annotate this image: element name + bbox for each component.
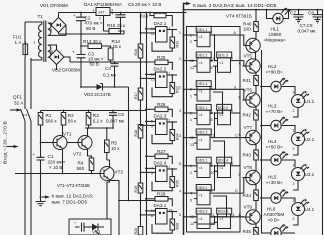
wire DA3.1 input a from bus x146 <box>146 210 156 212</box>
svg-text:470 мк ×: 470 мк × <box>85 21 103 26</box>
svg-text:DD1.1: DD1.1 <box>197 28 207 32</box>
svg-text:«Мережа»: «Мережа» <box>264 38 287 43</box>
svg-text:5: 5 <box>179 213 181 217</box>
wire input row y89.3 <box>184 88 195 90</box>
svg-text:13: 13 <box>190 143 194 147</box>
svg-text:5: 5 <box>190 198 192 202</box>
svg-text:R35: R35 <box>175 180 179 187</box>
svg-text:=1: =1 <box>199 217 203 221</box>
gate DD2.3 (XOR) <box>196 129 211 135</box>
wire DA2.2 output <box>167 74 177 76</box>
wire mains line L upper <box>24 22 26 44</box>
svg-text:R27: R27 <box>157 149 166 154</box>
wire input row y60.6 <box>184 60 195 62</box>
reference bus x146 <box>146 13 148 236</box>
resistor R1 <box>38 113 43 126</box>
svg-text:U4.1: U4.1 <box>305 207 315 212</box>
svg-text:R15 15 к: R15 15 к <box>107 23 126 28</box>
wire input row y165.8 <box>184 165 195 167</box>
wire input row y35 <box>184 34 195 36</box>
svg-text:R4: R4 <box>78 161 84 166</box>
svg-text:D: D <box>235 189 238 193</box>
svg-text:8: 8 <box>231 162 233 166</box>
wire y200.5 row <box>119 200 156 202</box>
svg-text:VT1–VT3 КТ315Б: VT1–VT3 КТ315Б <box>57 183 90 188</box>
gate DD1.4 (XOR) <box>196 81 211 87</box>
resistor R3 <box>86 113 91 126</box>
wire gate interconnect <box>197 66 216 89</box>
wire DA2.1 input b from divider x140.5 <box>141 32 156 34</box>
gate DD2.2 (XOR) <box>217 104 232 110</box>
svg-text:DA3.1: DA3.1 <box>154 203 167 208</box>
wire DA2.1 output <box>167 29 177 31</box>
svg-text:9: 9 <box>211 215 213 219</box>
resistor R33 <box>170 83 175 94</box>
svg-text:VT3: VT3 <box>115 170 124 175</box>
svg-text:R28: R28 <box>157 192 166 197</box>
svg-text:А: А <box>234 31 237 35</box>
svg-text:HL5: HL5 <box>268 175 277 180</box>
svg-text:HL4: HL4 <box>268 139 277 144</box>
thyristor box VS1 <box>69 219 111 235</box>
transistor VT4 <box>246 38 260 52</box>
svg-text:15 к: 15 к <box>113 44 122 49</box>
wire 0V line top <box>59 33 125 35</box>
resistor R18 <box>138 125 143 139</box>
svg-text:DA1 КР1158ЕН6А: DA1 КР1158ЕН6А <box>84 2 123 7</box>
svg-text:1: 1 <box>293 164 295 168</box>
svg-text:50 В: 50 В <box>86 26 95 31</box>
wire VT1 base from R1 node <box>41 142 54 144</box>
wire +5V rail from DA1 pin3 <box>110 12 187 14</box>
resistor R16 <box>138 44 143 58</box>
svg-text:R18: R18 <box>134 130 138 137</box>
svg-text:U2.1: U2.1 <box>305 137 315 142</box>
svg-text:0,047 мк: 0,047 мк <box>298 29 317 34</box>
wire gate interconnect <box>214 113 216 138</box>
svg-text:кЗТ: кЗТ <box>99 11 106 15</box>
gate DD1.2 (XOR) <box>196 52 211 58</box>
thyristor VS1 <box>88 226 92 228</box>
capacitor C3 <box>77 55 86 58</box>
wire input row y216.8 <box>184 216 195 218</box>
svg-text:В: В <box>239 133 242 137</box>
wire gate interconnect <box>213 196 227 217</box>
svg-text:9: 9 <box>211 164 213 168</box>
svg-text:2: 2 <box>293 217 295 221</box>
svg-text:С4: С4 <box>105 66 111 71</box>
svg-text:10: 10 <box>211 171 215 175</box>
svg-text:1 А: 1 А <box>15 40 23 45</box>
wire VT2 collector node <box>85 128 113 137</box>
wire to ground junction <box>40 196 42 198</box>
wire DD1.4 output to edge, node 9 <box>213 88 240 90</box>
svg-text:=1: =1 <box>219 217 223 221</box>
wire HL3 to U2.1 <box>281 126 295 133</box>
svg-text:+: + <box>73 13 76 18</box>
wire VD1 minus output <box>58 33 60 35</box>
svg-text:220 мк ×: 220 мк × <box>48 160 66 165</box>
svg-text:=1: =1 <box>199 166 203 170</box>
zener diode VD3 <box>81 86 97 88</box>
wire VT4 to VT5 <box>255 52 257 60</box>
transformer T1 secondary winding III <box>48 45 51 57</box>
node arrow к выв.12 <box>42 196 47 198</box>
svg-text:С1: С1 <box>48 154 54 159</box>
svg-text:5: 5 <box>211 118 213 122</box>
svg-text:VT6: VT6 <box>244 88 253 93</box>
svg-text:выв. 7 DD1–DD5: выв. 7 DD1–DD5 <box>52 200 88 205</box>
wire U2.1 pin2 down <box>293 146 298 156</box>
resistor R20 <box>138 227 143 236</box>
svg-text:R44: R44 <box>243 193 252 198</box>
ground <box>36 197 46 206</box>
wire VD2 output right <box>64 57 70 62</box>
svg-text:DD1.2: DD1.2 <box>197 53 207 57</box>
svg-text:2: 2 <box>293 182 295 186</box>
wire to VT8 base <box>240 178 244 194</box>
svg-text:HL3: HL3 <box>268 104 277 109</box>
wire DD1.3 output to edge <box>234 60 241 62</box>
capacitor C2 <box>76 13 86 35</box>
wire +rail from VD1 to DA1 <box>59 12 97 14</box>
svg-text:+: + <box>72 50 75 55</box>
capacitor C4 <box>111 62 119 87</box>
wire to VT5 base <box>240 61 246 66</box>
wire DD2.2 output to edge, node 6 <box>234 112 241 114</box>
svg-text:QF1: QF1 <box>13 95 22 100</box>
svg-text:R20: R20 <box>134 228 138 235</box>
resistor R24 <box>149 12 151 14</box>
wire to VT6 base <box>240 89 244 100</box>
svg-text:VT4 КТ361Б: VT4 КТ361Б <box>226 14 252 19</box>
svg-text:К выв. 12 DA2,DA3;: К выв. 12 DA2,DA3; <box>52 194 94 199</box>
svg-text:VD1 DF005M: VD1 DF005M <box>40 3 68 8</box>
svg-text:3: 3 <box>179 109 181 113</box>
svg-text:1: 1 <box>179 31 181 35</box>
svg-text:Б: Б <box>239 96 242 100</box>
resistor R5 <box>106 128 108 140</box>
transformer T1 core <box>44 21 46 63</box>
svg-text:R42: R42 <box>243 113 252 118</box>
svg-text:L5980: L5980 <box>269 32 282 37</box>
svg-text:R32: R32 <box>175 41 179 48</box>
wire gate interconnect <box>215 35 218 61</box>
wire input row y193.1 <box>184 192 195 194</box>
svg-text:С6: С6 <box>118 112 124 117</box>
resistor R36 <box>170 219 175 230</box>
svg-text:VT8: VT8 <box>244 165 253 170</box>
resistor R2 <box>61 113 66 126</box>
svg-text:13: 13 <box>168 209 172 213</box>
gate DD3.3 (XOR) <box>196 208 211 214</box>
gate DD3.4 (XOR) <box>217 208 232 214</box>
wire gate interconnect <box>197 217 215 224</box>
svg-text:VT7: VT7 <box>244 125 253 130</box>
wire DD3.4 output to edge, node 11 <box>213 216 240 218</box>
gate DD2.4 (XOR) <box>217 157 232 163</box>
wire base line y173.5 <box>15 173 100 175</box>
resistor R34 <box>170 130 175 141</box>
svg-text:1: 1 <box>168 27 170 31</box>
svg-text:2: 2 <box>168 166 170 170</box>
svg-text:4: 4 <box>179 189 181 193</box>
svg-text:C7,C8: C7,C8 <box>300 23 313 28</box>
wire input terminal arrow 1 <box>10 109 20 111</box>
svg-text:1: 1 <box>190 118 192 122</box>
wire DA2.2 input a from bus x146 <box>146 73 156 75</box>
svg-text:R1: R1 <box>46 113 52 118</box>
wire +V rail top right <box>184 10 323 235</box>
bridge rectifier VD1 <box>51 18 66 33</box>
svg-text:=1: =1 <box>199 35 203 39</box>
svg-text:4: 4 <box>211 59 213 63</box>
svg-text:DA2.2: DA2.2 <box>154 67 167 72</box>
wire VT1 collector to VT2 base <box>67 142 78 144</box>
wire DA3.1 output <box>167 211 177 213</box>
svg-text:С5 20 мк × 10 В: С5 20 мк × 10 В <box>128 2 161 7</box>
svg-text:13: 13 <box>190 222 194 226</box>
wire VT3 emitter down <box>107 180 110 220</box>
wire winding III to VD2 <box>48 45 57 50</box>
svg-text:R16: R16 <box>134 49 138 56</box>
wire vertical below C2 <box>80 34 82 87</box>
svg-text:9: 9 <box>234 85 236 89</box>
svg-text:FU1: FU1 <box>13 35 22 40</box>
svg-text:«+30 В»: «+30 В» <box>266 180 284 185</box>
wire U3.1 pin2 down <box>293 181 298 191</box>
svg-text:VT9: VT9 <box>244 205 253 210</box>
svg-text:4: 4 <box>211 111 213 115</box>
svg-text:R45: R45 <box>243 229 252 234</box>
svg-text:=1: =1 <box>199 113 203 117</box>
wire gate interconnect <box>197 166 215 190</box>
svg-text:HL6: HL6 <box>267 207 276 212</box>
wire primary top to fuse <box>25 22 42 25</box>
wire DA3.1 input b from divider x140.5 <box>141 214 156 216</box>
wire to VT9 base <box>240 216 244 218</box>
wire mains line N upper <box>30 58 32 109</box>
svg-text:+: + <box>111 11 114 16</box>
svg-text:DD2.3: DD2.3 <box>197 130 207 134</box>
svg-text:DD2.4: DD2.4 <box>218 159 228 163</box>
svg-text:R36: R36 <box>175 223 179 230</box>
svg-text:2: 2 <box>293 109 295 113</box>
resistor R19 <box>138 183 143 193</box>
svg-text:R25: R25 <box>157 55 166 60</box>
svg-text:+: + <box>33 152 36 157</box>
wire VD2 output bottom stub <box>56 65 58 71</box>
svg-text:100: 100 <box>243 27 251 32</box>
svg-text:2: 2 <box>293 147 295 151</box>
wire DA2.4 input b from divider x140.5 <box>141 171 156 173</box>
wire DD3.2 output to edge, node D <box>213 192 240 194</box>
svg-text:DD3.2: DD3.2 <box>197 186 207 190</box>
svg-text:32 А: 32 А <box>14 101 24 106</box>
divider bus x140.5 top <box>140 13 142 227</box>
wire DA2.3 input a from bus x146 <box>146 120 156 122</box>
svg-text:Вход ~130...270 В: Вход ~130...270 В <box>3 121 9 164</box>
svg-text:5,1 к: 5,1 к <box>93 119 104 124</box>
breaker QF1 pole 1 <box>21 109 26 121</box>
svg-text:DA2.1: DA2.1 <box>154 21 167 26</box>
svg-text:HL1: HL1 <box>271 27 280 32</box>
svg-text:=1: =1 <box>199 90 203 94</box>
capacitor C9 <box>75 223 88 232</box>
svg-text:R5: R5 <box>111 141 117 146</box>
svg-text:DA2.3: DA2.3 <box>154 114 167 119</box>
wire node line x128.5 <box>128 87 130 201</box>
svg-text:R43: R43 <box>243 153 252 158</box>
svg-text:Г: Г <box>239 173 241 177</box>
resistor R32 <box>170 37 175 48</box>
gate DD3.2 (XOR) <box>196 185 211 191</box>
wire HL2 to U1.1 <box>281 87 295 95</box>
wire U4.1 pin2 down <box>293 216 298 226</box>
svg-text:0,1 мк: 0,1 мк <box>103 73 117 78</box>
svg-text:II: II <box>50 28 53 33</box>
svg-text:10 к: 10 к <box>111 146 120 151</box>
svg-text:2: 2 <box>190 171 192 175</box>
svg-text:13: 13 <box>190 66 194 70</box>
breaker QF1 pole 2 <box>27 109 32 121</box>
svg-text:=1: =1 <box>199 138 203 142</box>
svg-text:2: 2 <box>190 40 192 44</box>
wire mains line N lower <box>30 121 32 235</box>
svg-text:3: 3 <box>210 31 212 35</box>
transformer T1 secondary winding II <box>48 23 51 35</box>
svg-text:«+50 В»: «+50 В» <box>266 145 284 150</box>
wire DA2.1 input a from bus x146 <box>146 28 156 30</box>
svg-text:1: 1 <box>93 9 95 13</box>
svg-text:VT5: VT5 <box>244 54 253 59</box>
gate DD1.3 (XOR) <box>217 52 232 58</box>
wire input terminal arrow 2 <box>7 146 17 148</box>
svg-text:3: 3 <box>210 85 212 89</box>
svg-text:DD1.4: DD1.4 <box>197 82 207 86</box>
svg-text:R41: R41 <box>243 78 252 83</box>
resistor R17 <box>138 88 143 100</box>
svg-text:R3: R3 <box>93 113 99 118</box>
wire mains line L mid <box>24 57 26 109</box>
capacitor C1 <box>37 125 45 197</box>
svg-text:U1.1: U1.1 <box>305 99 315 104</box>
capacitor C5 <box>116 13 126 32</box>
svg-text:R26: R26 <box>157 102 166 107</box>
svg-text:DD3.3: DD3.3 <box>197 210 207 214</box>
svg-text:R24: R24 <box>140 14 149 19</box>
svg-text:1: 1 <box>293 129 295 133</box>
collector bus x261 <box>261 50 263 233</box>
bridge rectifier VD2 <box>49 50 64 65</box>
svg-text:2: 2 <box>179 86 181 90</box>
transformer T1 primary winding I <box>39 25 42 58</box>
wire winding II to VD1 <box>48 23 51 25</box>
wire mains line L lower <box>24 121 26 235</box>
gate DD3.1 (XOR) <box>196 157 211 163</box>
svg-text:56 к: 56 к <box>68 119 77 124</box>
svg-text:1: 1 <box>293 199 295 203</box>
svg-text:6: 6 <box>231 109 233 113</box>
wire R5 bottom to VT3 collector <box>107 153 110 168</box>
wire +5V distribution line x183.5 with arrow <box>184 4 187 236</box>
svg-text:1: 1 <box>168 72 170 76</box>
svg-text:U3.1: U3.1 <box>305 172 315 177</box>
svg-text:6: 6 <box>231 57 233 61</box>
regulator DA1 <box>96 8 110 16</box>
svg-text:560: 560 <box>77 166 85 171</box>
svg-text:R17: R17 <box>134 92 138 99</box>
svg-text:DD1.3: DD1.3 <box>218 53 228 57</box>
svg-text:АЛ307БМ: АЛ307БМ <box>264 212 285 217</box>
svg-text:11: 11 <box>231 213 235 217</box>
svg-text:Б: Б <box>179 162 182 166</box>
svg-text:11: 11 <box>210 134 214 138</box>
svg-text:Д: Д <box>239 213 242 217</box>
svg-text:VD3 2С147Б: VD3 2С147Б <box>84 92 111 97</box>
svg-text:С: С <box>179 57 182 61</box>
svg-text:R2: R2 <box>68 113 74 118</box>
wire DD1.1 output to edge, node A <box>213 34 240 36</box>
svg-text:I: I <box>34 40 35 45</box>
svg-text:1: 1 <box>190 95 192 99</box>
enclosure DD1-DD3 <box>187 27 241 233</box>
svg-text:«0 В»: «0 В» <box>268 218 280 223</box>
wire to VT7 base <box>240 137 244 139</box>
svg-text:DA2.4: DA2.4 <box>154 161 167 166</box>
wire DA2.3 input b from divider x140.5 <box>141 124 156 126</box>
wire DA2.2 input b from divider x140.5 <box>141 77 156 79</box>
svg-text:3: 3 <box>179 134 181 138</box>
wire DD2.4 output to edge <box>234 165 241 167</box>
fuse FU1 <box>23 44 28 55</box>
svg-text:DD3.1: DD3.1 <box>197 159 207 163</box>
resistor R4 <box>88 149 92 159</box>
svg-text:DD2.1: DD2.1 <box>197 106 207 110</box>
svg-text:=1: =1 <box>219 61 223 65</box>
wire h-line y62 <box>70 61 155 63</box>
wire DA2.4 output <box>167 168 177 170</box>
wire U1.1 pin2 down <box>293 108 298 118</box>
wire input row y137.6 <box>184 137 195 139</box>
svg-text:=1: =1 <box>219 166 223 170</box>
svg-text:T1: T1 <box>38 14 44 19</box>
svg-text:К выв. 3 DA2,DA3; выв. 14 DD1–: К выв. 3 DA2,DA3; выв. 14 DD1–DD5 <box>193 3 277 9</box>
wire node A row to VT4 base <box>240 35 246 46</box>
LED HL1 <box>266 9 268 11</box>
resistor R40 <box>255 10 257 22</box>
wire DA2.3 output <box>167 121 177 123</box>
svg-text:1: 1 <box>293 91 295 95</box>
svg-text:560 к: 560 к <box>46 119 58 124</box>
svg-text:=1: =1 <box>199 61 203 65</box>
svg-text:0,047 мк: 0,047 мк <box>106 119 125 124</box>
svg-text:+: + <box>74 221 76 225</box>
svg-text:«+70 В»: «+70 В» <box>266 109 284 114</box>
wire VD1 plus output <box>58 13 60 18</box>
svg-text:«+90 В»: «+90 В» <box>266 70 284 75</box>
svg-text:VS1: VS1 <box>92 230 101 235</box>
wire HL4 to U3.1 <box>281 160 295 167</box>
svg-text:× 10 В: × 10 В <box>49 165 62 170</box>
svg-text:VT1: VT1 <box>63 132 72 137</box>
svg-text:5: 5 <box>211 66 213 70</box>
wire primary bottom to mains N <box>31 58 42 61</box>
svg-text:HL2: HL2 <box>268 64 277 69</box>
resistor R35 <box>170 177 175 188</box>
svg-text:VT2: VT2 <box>73 152 82 157</box>
wire DA1 pin2 down <box>103 16 105 32</box>
